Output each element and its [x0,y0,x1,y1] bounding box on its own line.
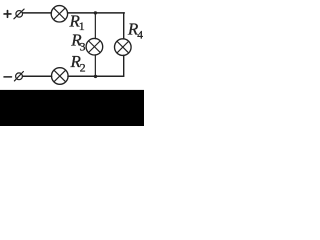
wire: right branch down from corner to lamp R4 [123,13,125,39]
terminal top (circle with slash) [14,9,24,19]
svg-text:2: 2 [80,61,86,75]
lamp R1 [51,6,67,22]
wire: top junction down to lamp R3 [94,13,96,39]
wire: lamp R3 down to bottom junction [94,55,96,76]
label R3 [70,31,85,54]
junction node top [94,11,97,14]
lamp R3 [86,38,103,55]
label R4 [127,20,143,42]
junction node bottom [94,75,97,78]
plus sign (+) polarity mark [4,11,11,18]
wire: lamp R2 to bottom-right corner [68,75,124,77]
lamp R4 [115,39,132,56]
minus sign (−) polarity mark [4,76,12,78]
background [0,0,144,126]
label R2 [70,52,86,75]
label R1 [69,12,85,34]
wire: + terminal to lamp R1 [23,12,52,14]
svg-text:4: 4 [137,30,143,42]
lamp R2 [52,68,69,85]
wire: lamp R1 to top-right corner [68,12,125,14]
wire: − terminal to lamp R2 [23,75,52,77]
black censor bar at bottom [0,90,144,126]
terminal bottom (circle with slash) [14,72,23,81]
wire: lamp R4 down to bottom rail corner [123,55,125,76]
